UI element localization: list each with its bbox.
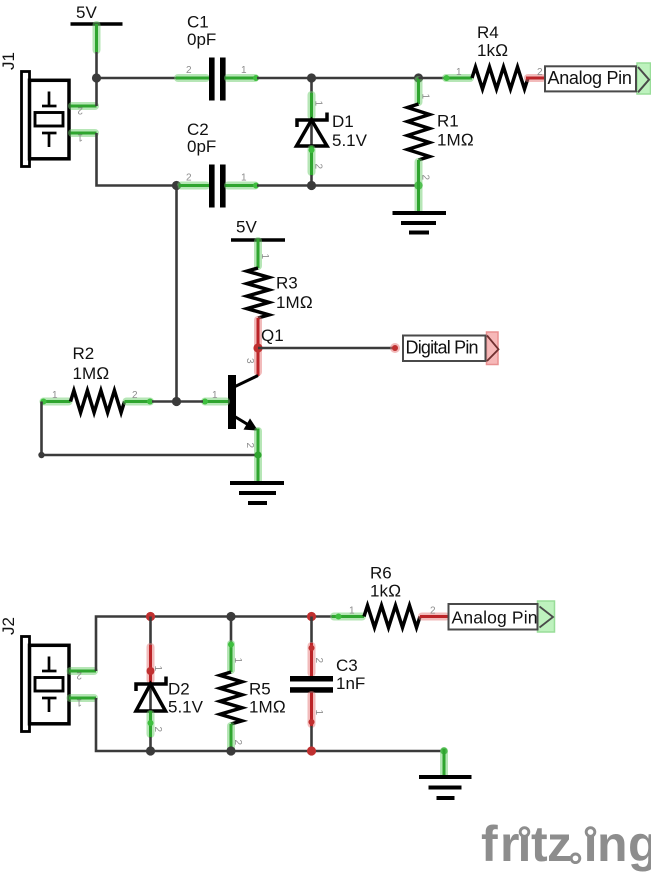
wire J1 pin1 down and right to node B: [97, 133, 177, 186]
svg-text:2: 2: [76, 670, 82, 681]
svg-text:2: 2: [313, 658, 324, 664]
Q1 base leg pin 1: [202, 390, 228, 405]
resistor R6: [332, 564, 449, 628]
svg-text:R2: R2: [73, 344, 95, 363]
svg-text:3: 3: [244, 358, 255, 364]
svg-text:2: 2: [152, 727, 163, 733]
svg-text:Q1: Q1: [261, 326, 284, 345]
capacitor C3: [290, 617, 365, 752]
svg-text:2: 2: [313, 164, 324, 170]
svg-text:Digital Pin: Digital Pin: [406, 338, 478, 358]
wire node H to base: [177, 400, 204, 403]
wire end dot: [390, 343, 400, 353]
node J junction (D2 top) red: [146, 612, 155, 621]
svg-text:2: 2: [186, 173, 192, 184]
svg-text:2: 2: [77, 105, 83, 116]
resistor R1: [408, 78, 474, 213]
svg-text:1: 1: [456, 67, 462, 78]
resistor R3: [247, 239, 313, 348]
node I junction (emitter/ground): [254, 451, 261, 458]
svg-text:C1: C1: [187, 13, 209, 32]
wire J1 pin2 up to node A: [95, 78, 98, 106]
wire node C to node D: [312, 77, 419, 80]
wire J2 pin1 down and right along bottom row: [96, 698, 444, 751]
svg-text:0pF: 0pF: [187, 137, 216, 156]
ground symbol 2: [230, 483, 284, 503]
J1 pin 1 leg: [71, 132, 97, 143]
svg-text:5.1V: 5.1V: [332, 131, 368, 150]
capacitor C2: [179, 120, 259, 208]
node D junction: [414, 73, 423, 82]
svg-text:Analog Pin: Analog Pin: [548, 68, 632, 88]
svg-text:1MΩ: 1MΩ: [437, 131, 474, 150]
wire C2 pin1 to node E: [257, 184, 312, 187]
node C junction: [307, 73, 316, 82]
svg-text:1: 1: [241, 173, 247, 184]
svg-text:1: 1: [349, 606, 355, 617]
node H junction: [172, 397, 181, 406]
svg-text:2: 2: [420, 175, 431, 181]
wire node B down to node H: [175, 186, 178, 402]
power 5V supply 1: [71, 3, 123, 52]
power 5V supply 2: [231, 218, 285, 241]
svg-text:D1: D1: [332, 112, 354, 131]
svg-text:1nF: 1nF: [336, 674, 365, 693]
wire collector to Digital Pin: [258, 347, 395, 350]
node O junction (C3 bottom) red: [307, 746, 316, 755]
resistor R4: [419, 23, 545, 89]
svg-text:2: 2: [244, 443, 255, 449]
zener diode D1: [297, 78, 368, 186]
svg-text:1: 1: [76, 697, 82, 708]
node A junction: [92, 73, 101, 82]
svg-text:1kΩ: 1kΩ: [370, 582, 401, 601]
svg-text:1: 1: [259, 254, 270, 260]
svg-text:1MΩ: 1MΩ: [276, 293, 313, 312]
node K junction (R5 top): [226, 612, 235, 621]
svg-text:R5: R5: [249, 680, 271, 699]
wire R2 pin1 down and right to emitter: [42, 402, 259, 456]
connector Digital Pin: [403, 332, 499, 365]
piezo J2: [0, 617, 69, 731]
svg-text:C3: C3: [336, 656, 358, 675]
svg-text:R3: R3: [276, 274, 298, 293]
resistor R2: [41, 344, 154, 413]
svg-text:2: 2: [537, 67, 543, 78]
svg-text:J1: J1: [0, 52, 18, 70]
node small dot: [38, 452, 44, 458]
svg-text:1: 1: [77, 132, 83, 143]
svg-text:1: 1: [152, 666, 163, 672]
piezo J1: [0, 52, 69, 166]
svg-text:1: 1: [313, 101, 324, 107]
wire 5V to node A: [95, 52, 98, 78]
node P junction (ground) green: [440, 747, 447, 754]
svg-text:R4: R4: [477, 23, 499, 42]
ground symbol 3: [419, 777, 472, 798]
J2 pin 1 leg: [69, 697, 96, 708]
wire ground leg green: [440, 749, 448, 777]
node B junction: [172, 181, 181, 190]
node G junction (collector): [253, 343, 262, 352]
Q1 emitter leg pin 2: [244, 429, 258, 484]
wire C1 pin1 to node C: [257, 77, 312, 80]
node E junction: [307, 181, 316, 190]
svg-text:R6: R6: [370, 564, 392, 583]
svg-text:5V: 5V: [236, 218, 257, 237]
svg-text:D2: D2: [168, 680, 190, 699]
wire collector red segment: [244, 348, 258, 376]
svg-text:1: 1: [420, 94, 431, 100]
svg-text:1: 1: [241, 65, 247, 76]
ground symbol 1: [393, 213, 447, 233]
J1 pin 2 leg: [71, 105, 97, 116]
svg-text:1MΩ: 1MΩ: [249, 698, 286, 717]
svg-text:2: 2: [132, 390, 138, 401]
svg-text:2: 2: [430, 606, 436, 617]
svg-text:0pF: 0pF: [187, 30, 216, 49]
wire node A to C1 pin2: [97, 77, 177, 80]
svg-text:J2: J2: [0, 617, 18, 635]
svg-text:1: 1: [212, 390, 218, 401]
wire R2 pin2 to node H: [152, 400, 177, 403]
wire node E to node F: [312, 184, 419, 187]
zener diode D2: [136, 617, 204, 752]
svg-text:R1: R1: [437, 112, 459, 131]
svg-text:2: 2: [232, 740, 243, 746]
fritzing logo: [481, 816, 651, 872]
capacitor C1: [176, 13, 259, 101]
node M junction (D2 bottom): [146, 746, 155, 755]
node N junction (R5 bottom): [226, 746, 235, 755]
svg-text:5V: 5V: [76, 3, 97, 22]
svg-text:1MΩ: 1MΩ: [73, 364, 110, 383]
svg-text:2: 2: [186, 65, 192, 76]
svg-text:5.1V: 5.1V: [168, 698, 204, 717]
connector Analog Pin 1: [545, 63, 651, 94]
svg-text:1: 1: [232, 658, 243, 664]
svg-text:1kΩ: 1kΩ: [477, 41, 508, 60]
resistor R5: [220, 617, 286, 752]
node L junction (C3 top) red: [307, 612, 316, 621]
svg-text:frıtzıng: frıtzıng: [481, 816, 651, 872]
wire J2 pin2 up and right along top row: [96, 617, 332, 672]
transistor Q1: [228, 375, 258, 431]
svg-text:1: 1: [313, 710, 324, 716]
connector Analog Pin 2: [449, 601, 555, 632]
node F junction green: [414, 181, 422, 189]
svg-text:Analog Pin: Analog Pin: [452, 608, 538, 628]
J2 pin 2 leg: [69, 670, 96, 681]
svg-text:1: 1: [52, 390, 58, 401]
